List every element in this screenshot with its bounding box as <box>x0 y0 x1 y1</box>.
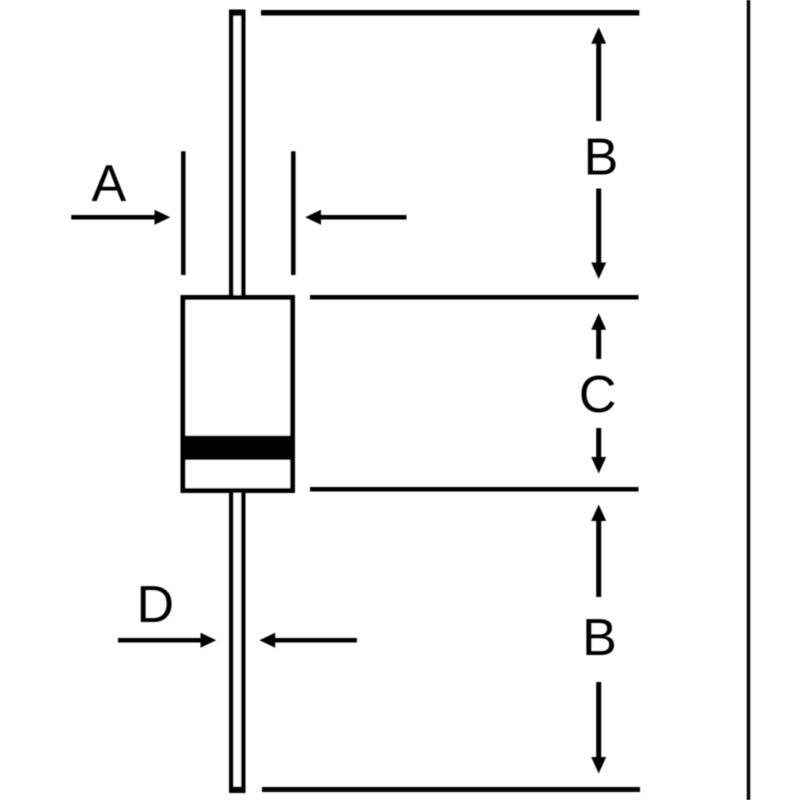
dimension C upper shaft <box>596 329 601 360</box>
reference line: bottom lead end <box>262 787 640 792</box>
svg-text:B: B <box>582 609 617 667</box>
reference line: top lead end <box>261 10 639 16</box>
dimension B (top) down arrowhead <box>591 263 606 280</box>
right border rule <box>747 0 750 800</box>
top lead end cap <box>229 10 246 17</box>
dimension D left arrowhead (points right) <box>201 633 217 648</box>
dimension A left arrowhead (points right) <box>155 210 171 225</box>
svg-text:A: A <box>91 155 126 213</box>
svg-text:B: B <box>584 129 619 187</box>
reference line: body bottom edge <box>310 487 639 492</box>
dimension D right arrow shaft <box>274 638 357 643</box>
dimension B (bottom) up arrowhead <box>591 505 606 522</box>
dimension B (bottom) lower shaft <box>596 682 601 759</box>
dimension A right arrowhead (points left) <box>305 210 321 225</box>
dimension A right arrow shaft <box>320 215 407 220</box>
dimension C down arrowhead <box>591 457 606 474</box>
dimension A right extension line <box>291 151 296 275</box>
dimension C up arrowhead <box>591 313 606 330</box>
dimension B (top) up arrowhead <box>591 27 606 44</box>
top lead wire of diode D1 <box>231 12 243 300</box>
dimension A left extension line <box>181 151 186 275</box>
dimension A left arrow shaft <box>71 215 156 220</box>
dimension B (bottom) down arrowhead <box>591 757 606 774</box>
svg-text:D: D <box>137 576 175 634</box>
dimension B (bottom) upper shaft <box>596 520 601 597</box>
svg-text:C: C <box>579 366 617 424</box>
reference line: body top edge <box>310 295 639 300</box>
dimension B (top) lower shaft <box>596 189 601 265</box>
dimension C lower shaft <box>596 428 601 459</box>
dimension B (top) upper shaft <box>596 43 601 122</box>
dimension D left arrow shaft <box>118 638 202 643</box>
dimension D right arrowhead (points left) <box>259 633 275 648</box>
cathode band on diode body <box>184 436 293 460</box>
diode body outline D1 <box>183 298 293 491</box>
bottom lead wire of diode D1 <box>231 489 243 791</box>
bottom lead end cap <box>229 787 246 794</box>
